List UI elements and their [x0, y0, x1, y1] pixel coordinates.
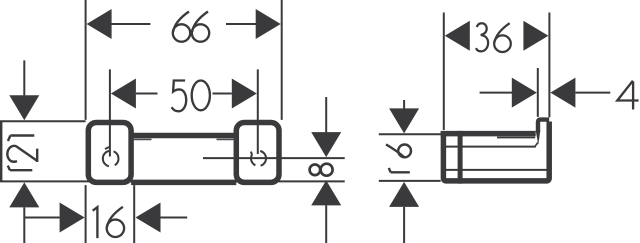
- dimension 16 side: lower segment: [403, 207, 405, 243]
- arrow 66 left: [87, 9, 112, 39]
- side inner column: [458, 131, 463, 184]
- arrow 66 right: [256, 9, 281, 39]
- extension line 50-right (centerline): [257, 69, 259, 154]
- leader line for 8: [203, 157, 345, 159]
- lip taper wedge: [536, 131, 541, 145]
- dimension 16 side: upper segment: [403, 100, 405, 109]
- arrow 4 pointing right: [512, 78, 537, 108]
- extension line 16side-top: [379, 133, 441, 135]
- left edge + bottom edge + right edge: [443, 122, 549, 181]
- extension line 16-left: [85, 185, 87, 243]
- arrow 50 left: [111, 79, 136, 109]
- left border tick: [0, 121, 2, 181]
- hook square right: [236, 122, 279, 182]
- dimension 16 front: right segment: [161, 217, 188, 219]
- arrow 16 pointing right: [60, 203, 85, 233]
- lip (hook tip): [538, 120, 549, 132]
- dimension 21 line upper: [23, 60, 25, 95]
- label 36: [476, 23, 488, 51]
- inner thin line lower: [446, 169, 547, 171]
- side profile outline: [441, 122, 550, 181]
- label 4: [617, 81, 638, 110]
- inner thin line upper: [446, 146, 536, 148]
- arrow 36 right: [523, 21, 548, 51]
- label 50: [172, 81, 187, 112]
- arrow 21 up: [9, 182, 39, 207]
- dimension 50 line stubs: [136, 93, 158, 95]
- inner line end diagonal: [535, 142, 538, 146]
- dimension 4: left segment: [480, 92, 513, 94]
- arrow 4 pointing left: [550, 78, 575, 108]
- top edge: [441, 131, 536, 137]
- arrow 36 left: [445, 21, 470, 51]
- label 16 front: [93, 207, 98, 238]
- arrow 50 right: [232, 79, 257, 109]
- dimension 4: right segment: [575, 92, 610, 94]
- dimension 8 line upper: [325, 97, 327, 133]
- extension line 21-top: [0, 120, 86, 122]
- label 16 side (rotated): [386, 144, 411, 172]
- extension line 66-left: [85, 0, 87, 120]
- arrow 16side up: [389, 182, 419, 207]
- hook square left: [88, 122, 131, 182]
- inner surface line (fused under top edge): [497, 137, 535, 139]
- arrow 16side down: [389, 108, 419, 133]
- dimension 21 line lower: [23, 207, 25, 243]
- fillet stub right: [217, 138, 236, 140]
- dimension 16 front: left segment: [24, 217, 59, 219]
- extension line 16side-bottom: [379, 180, 441, 182]
- icon left hook: [103, 147, 119, 166]
- label 8 (rotated): [310, 164, 333, 176]
- dimension 66 line stubs: [111, 23, 150, 25]
- extension line 4-left: [537, 68, 539, 117]
- arrow 16 pointing left: [136, 203, 161, 233]
- extension line 36-right: [548, 13, 550, 118]
- arrow 8 up: [311, 180, 341, 205]
- icon right hook: [251, 151, 266, 166]
- extension line 66-right: [281, 0, 283, 120]
- label 66: [173, 12, 190, 42]
- extension line 36-left: [443, 13, 445, 131]
- extension line 50-left (centerline): [109, 69, 111, 156]
- dimension 8 line lower: [325, 205, 327, 243]
- baseline: [0, 180, 345, 182]
- arrow 8 down: [311, 132, 341, 157]
- fillet stub left: [133, 138, 152, 140]
- label 21 (rotated): [7, 136, 37, 171]
- arrow 21 down: [9, 95, 39, 120]
- extension line 16-right: [133, 185, 135, 243]
- bar bottom edge: [131, 180, 236, 186]
- bar top edge: [131, 133, 236, 139]
